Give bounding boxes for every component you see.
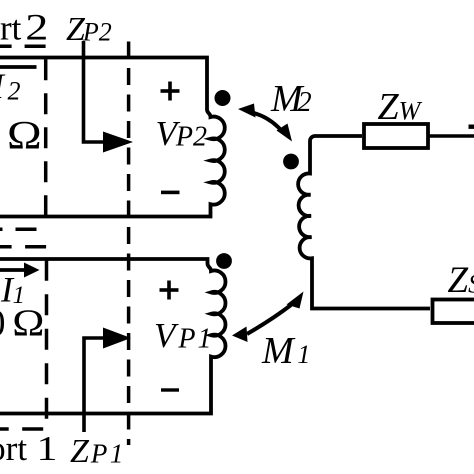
- label + of VP2: [161, 89, 180, 93]
- svg-text:VP2: VP2: [156, 114, 208, 153]
- svg-text:ZP2: ZP2: [66, 11, 112, 48]
- dashed reference plane line: [127, 42, 131, 446]
- label - of VP1: [161, 388, 179, 391]
- svg-text:Port: Port: [0, 9, 22, 48]
- dot (polarity) on LP1: [216, 253, 232, 269]
- svg-text:I2: I2: [0, 66, 21, 106]
- dot (polarity) on LS: [283, 154, 299, 170]
- svg-text:ZW: ZW: [378, 86, 423, 128]
- port 2 primary loop wire with inductor LP2: [0, 58, 225, 217]
- svg-text:Ω: Ω: [12, 302, 44, 344]
- current I1 arrow: [0, 268, 25, 272]
- label fragment at right edge: [469, 125, 474, 129]
- dashed box port 1 (50 ohm source): [0, 247, 47, 429]
- mutual coupling M1 curved double arrow: [247, 305, 291, 334]
- dashed box port 2 (50 ohm source): [0, 46, 46, 229]
- svg-text:ZSe: ZSe: [448, 260, 474, 301]
- svg-text:Ω: Ω: [7, 114, 42, 158]
- current I2 arrow shaft: [0, 65, 37, 69]
- svg-text:1: 1: [37, 430, 58, 468]
- svg-text:Port: Port: [0, 429, 27, 468]
- label + of VP1: [160, 288, 179, 292]
- ZP2 measurement arrow: [84, 41, 105, 142]
- dot (polarity) on LP2: [215, 90, 231, 106]
- svg-text:VP1: VP1: [154, 316, 214, 355]
- ZP1 measurement arrow: [84, 338, 104, 432]
- port 1 primary loop wire with inductor LP1: [0, 259, 226, 414]
- impedance box ZW: [364, 124, 428, 148]
- svg-text:ZP1: ZP1: [70, 433, 126, 470]
- svg-text:0: 0: [0, 303, 6, 345]
- wire from ZW to right edge: [430, 134, 474, 138]
- svg-text:M1: M1: [261, 330, 310, 372]
- label - of VP2: [161, 191, 180, 195]
- svg-text:M2: M2: [270, 78, 312, 120]
- impedance box ZSen (cut at edge): [433, 300, 474, 324]
- secondary loop wire with inductor LS: [298, 136, 430, 309]
- svg-text:2: 2: [25, 8, 48, 49]
- label 50 ohm (top, cut): [7, 114, 42, 158]
- mutual coupling M2 curved double arrow: [252, 113, 280, 130]
